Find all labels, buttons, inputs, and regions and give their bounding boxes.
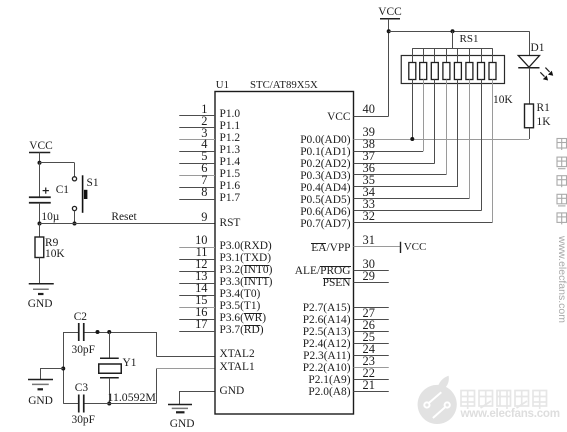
pin name VCC	[327, 112, 350, 123]
resistor RS1 element 6	[466, 48, 473, 199]
resistor RS1 element 8	[489, 48, 496, 223]
wire rail to left ground	[40, 369, 63, 380]
node reset junction left	[38, 222, 42, 226]
wire pin 14 stub	[179, 295, 215, 297]
pin 5 number	[201, 150, 207, 162]
wire RS1 common feed	[452, 31, 454, 48]
pin name P3.1(TXD)	[220, 253, 272, 264]
resistor R9	[35, 224, 44, 284]
Y1 value 11.0592M	[108, 392, 156, 404]
pin 16 number	[195, 306, 207, 318]
LED D1	[518, 31, 553, 104]
pin name P3.6(WR)	[220, 313, 267, 324]
IC U1 body	[215, 92, 354, 415]
VCC label (top right)	[378, 7, 401, 18]
pin name P0.1(AD1)	[300, 147, 350, 158]
pin name PSEN	[323, 278, 351, 289]
wire pin 20 to ground	[179, 391, 215, 405]
wire pin 33 stub	[354, 210, 482, 212]
S1 designator	[87, 178, 99, 189]
watermark right edge brand glyphs	[557, 139, 567, 225]
wire pin 40 stub	[354, 116, 389, 118]
watermark right edge url	[556, 236, 567, 323]
wire pin 10 stub	[179, 247, 215, 249]
wire XTAL1 corner to pin 19	[156, 369, 215, 404]
VCC label (pin 31)	[404, 242, 427, 253]
pin name P3.3(INT1)	[220, 277, 273, 288]
pin 12 number	[195, 258, 207, 270]
pin 27 number	[363, 307, 375, 319]
wire pin 28 stub	[354, 307, 389, 309]
node reset junction S1	[73, 222, 77, 226]
capacitor C2	[79, 323, 84, 341]
pin 35 number	[363, 174, 375, 186]
resistor RS1 element 4	[443, 48, 450, 175]
wire pin 38 stub	[354, 151, 424, 153]
RS1 designator	[460, 34, 479, 45]
resistor RS1 element 7	[478, 48, 485, 211]
power VCC (reset circuit)	[29, 153, 50, 163]
pin 26 number	[363, 319, 375, 331]
pin name P3.0(RXD)	[220, 241, 272, 252]
pin name P3.7(RD)	[220, 325, 264, 336]
wire pin 21 stub	[354, 391, 389, 393]
resistor RS1 element 1	[409, 48, 416, 139]
wire pin 16 stub	[179, 319, 215, 321]
pin 34 number	[363, 186, 375, 198]
wire pin 37 stub	[354, 163, 435, 165]
pin name XTAL2	[220, 349, 255, 360]
watermark brand glyphs	[461, 391, 547, 410]
pin name P3.4(T0)	[220, 289, 261, 300]
node RS1 to pin39	[410, 137, 414, 141]
pin 14 number	[195, 282, 207, 294]
pin 31 number	[363, 234, 375, 246]
RS1 value 10K	[493, 95, 513, 106]
wire XTAL1 net bottom	[63, 403, 156, 405]
C2 designator	[74, 312, 87, 323]
pin 22 number	[363, 367, 375, 379]
R1 designator	[537, 103, 550, 114]
resistor RS1 element 2	[420, 48, 427, 151]
ground (crystal left)	[28, 380, 53, 390]
wire VCC bus to LED	[389, 31, 530, 33]
pin 29 number	[363, 270, 375, 282]
C2 value 30pF	[72, 345, 95, 356]
resistor RS1 element 3	[431, 48, 438, 163]
pin name P1.2	[220, 133, 241, 144]
wire pin 36 stub	[354, 174, 447, 176]
pin name P0.0(AD0)	[300, 135, 350, 146]
pin 38 number	[363, 138, 375, 150]
pin name P0.7(AD7)	[300, 219, 350, 230]
GND label (below R9)	[28, 299, 53, 310]
wire pin 8 stub	[179, 199, 215, 201]
wire pin 6 stub	[179, 175, 215, 177]
pin name P1.3	[220, 145, 241, 156]
wire pin 3 stub	[179, 139, 215, 141]
switch S1	[72, 175, 87, 223]
wire pin 15 stub	[179, 307, 215, 309]
pin name P2.3(A11)	[303, 351, 350, 362]
pin 9 number	[201, 211, 207, 223]
wire pin 22 stub	[354, 379, 389, 381]
VCC label (reset circuit)	[29, 141, 52, 152]
pin name P1.1	[220, 121, 241, 132]
pin 25 number	[363, 331, 375, 343]
wire pin 27 stub	[354, 319, 389, 321]
wire pin 35 stub	[354, 186, 458, 188]
capacitor C1	[29, 163, 51, 224]
pin 1 number	[201, 103, 207, 115]
pin name GND	[220, 386, 245, 397]
wire pin 31 stub	[354, 246, 401, 248]
wire pin 29 stub	[354, 282, 389, 284]
resistor RS1 element 5	[454, 48, 461, 187]
crystal Y1	[99, 332, 122, 404]
wire pin 11 stub	[179, 259, 215, 261]
pin name P2.0(A8)	[308, 387, 350, 398]
pin name P1.5	[220, 169, 241, 180]
pin name EA/VPP	[311, 243, 350, 254]
wire pin 2 stub	[179, 127, 215, 129]
wire pin 39 stub	[354, 139, 530, 141]
pin 11 number	[196, 246, 208, 258]
pin 30 number	[363, 258, 375, 270]
R9 designator	[45, 238, 58, 249]
ground (below R9)	[29, 284, 54, 294]
node reset-top junction	[38, 161, 42, 165]
wire pin 34 stub	[354, 198, 470, 200]
pin name P3.2(INT0)	[220, 265, 273, 276]
pin name P2.7(A15)	[303, 303, 351, 314]
pin 36 number	[363, 162, 375, 174]
pin 21 number	[363, 379, 375, 391]
C3 designator	[75, 383, 88, 394]
wire XTAL2 corner to pin 18	[156, 332, 215, 357]
pin name P1.0	[220, 109, 241, 120]
pin 24 number	[363, 343, 375, 355]
pin name P1.7	[220, 193, 241, 204]
wire VCC node to S1	[40, 163, 75, 177]
pin name XTAL1	[220, 362, 255, 373]
pin 13 number	[195, 270, 207, 282]
wire pin 26 stub	[354, 331, 389, 333]
pin name ALE/PROG	[295, 266, 351, 277]
pin 39 number	[363, 126, 375, 138]
wire XTAL2 net top	[63, 332, 156, 334]
pin 10 number	[195, 234, 207, 246]
pin name P0.6(AD6)	[300, 207, 350, 218]
pin 7 number	[201, 174, 207, 186]
capacitor C3	[79, 395, 84, 413]
wire pin 25 stub	[354, 343, 389, 345]
C3 value 30pF	[72, 415, 95, 426]
pin name P3.5(T1)	[220, 301, 261, 312]
wire pin 12 stub	[179, 271, 215, 273]
pin name P2.5(A13)	[303, 327, 351, 338]
pin name P2.1(A9)	[308, 375, 350, 386]
resistor R1	[525, 104, 534, 139]
pin 2 number	[201, 115, 207, 127]
C1 designator	[56, 185, 69, 196]
R1 value 1K	[537, 117, 551, 128]
power VCC (pin 31)	[400, 242, 402, 253]
wire pin 30 stub	[354, 270, 389, 272]
wire pin 23 stub	[354, 367, 389, 369]
wire pin 13 stub	[179, 283, 215, 285]
pin name RST	[220, 218, 241, 229]
wire pin 5 stub	[179, 163, 215, 165]
pin 3 number	[201, 127, 207, 139]
wire pin 17 stub	[179, 331, 215, 333]
Y1 designator	[123, 358, 137, 369]
U1 designator	[216, 80, 229, 91]
wire pin 4 stub	[179, 151, 215, 153]
pin name P2.4(A12)	[303, 339, 351, 350]
pin 6 number	[201, 162, 207, 174]
pin name P0.4(AD4)	[300, 183, 350, 194]
node Y1 top stray	[96, 330, 100, 334]
node VCC pin40 junction	[387, 29, 391, 33]
watermark url text	[461, 408, 560, 420]
pin 37 number	[363, 150, 375, 162]
pin 33 number	[363, 198, 375, 210]
R9 value 10K	[45, 249, 65, 260]
wire pin 24 stub	[354, 355, 389, 357]
D1 designator	[531, 43, 545, 54]
node Y1 bottom junction	[107, 402, 111, 406]
pin name P0.2(AD2)	[300, 159, 350, 170]
pin 4 number	[201, 138, 207, 150]
wire pin 1 stub	[179, 115, 215, 117]
pin name P1.4	[220, 157, 241, 168]
resistor network RS1 common bus	[412, 48, 492, 50]
pin 17 number	[195, 318, 207, 330]
GND label (crystal left)	[28, 396, 53, 407]
wire pin 7 stub	[179, 187, 215, 189]
pin name P2.6(A14)	[303, 315, 351, 326]
power VCC (top right)	[380, 19, 400, 116]
ground (pin 20)	[168, 405, 192, 413]
pin name P2.2(A10)	[303, 363, 351, 374]
node ground tap on rail	[61, 367, 65, 371]
net name Reset	[111, 212, 136, 223]
wire crystal left rail	[63, 332, 65, 404]
pin 8 number	[201, 186, 207, 198]
resistor network RS1 box	[401, 56, 504, 84]
pin name P0.3(AD3)	[300, 171, 350, 182]
C1 value 10u	[41, 212, 59, 223]
node Y1 top junction	[107, 330, 111, 334]
pin name P1.6	[220, 181, 241, 192]
pin 40 number	[363, 103, 375, 115]
pin 23 number	[363, 355, 375, 367]
node RS1 common junction	[451, 29, 455, 33]
wire Reset net to RST pin 9	[40, 223, 216, 225]
wire pin 32 stub	[354, 222, 493, 224]
U1 part number STC/AT89X5X	[250, 80, 318, 91]
pin 32 number	[363, 210, 375, 222]
watermark logo circle	[418, 376, 457, 424]
pin name P0.5(AD5)	[300, 195, 350, 206]
pin 15 number	[195, 294, 207, 306]
GND label (pin 20)	[170, 419, 195, 430]
